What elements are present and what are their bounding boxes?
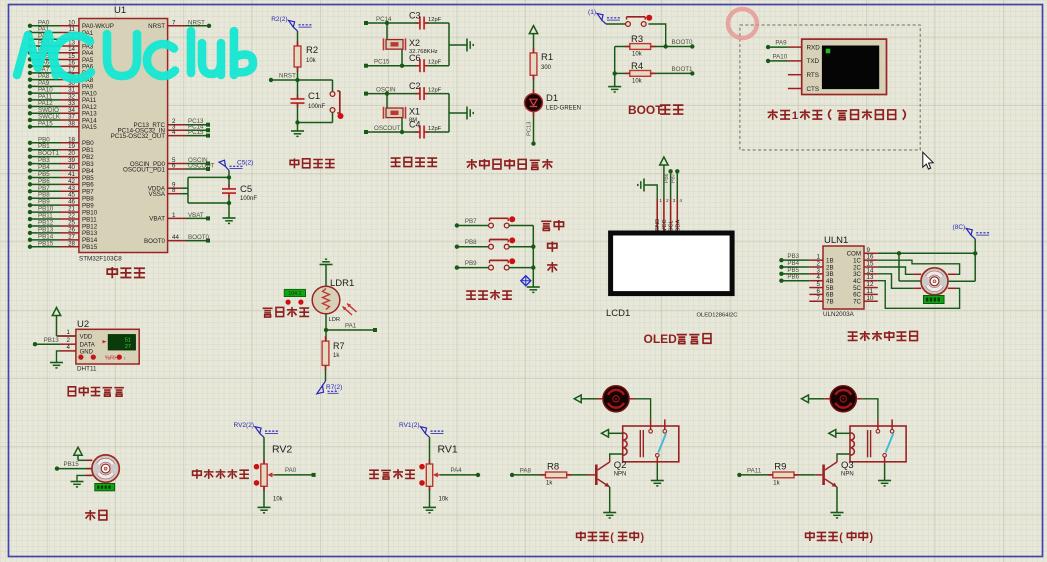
watermark MCUclub	[17, 31, 253, 79]
svg-text:8: 8	[172, 187, 176, 194]
U1 pin 2 PC13 wire	[133, 118, 210, 129]
node NRST	[269, 73, 333, 83]
ULN1 pin 12 5C	[853, 281, 878, 292]
ULN1 pin 7 7B	[809, 295, 833, 306]
svg-text:PA0: PA0	[285, 467, 297, 474]
svg-text:PA1: PA1	[345, 323, 357, 330]
svg-text:SCL: SCL	[669, 219, 675, 231]
ULN1 pin 4 4B	[809, 274, 833, 285]
BOOT button	[606, 15, 652, 27]
ULN1 pin 10 7C	[853, 295, 878, 306]
svg-text:OSCOUT_PD1: OSCOUT_PD1	[123, 166, 166, 173]
crystal X2 32.768KHz	[384, 21, 438, 68]
svg-text:X1: X1	[409, 106, 420, 116]
ground (inverted) LDR top	[320, 259, 333, 286]
label 四项步进电机	[848, 331, 918, 341]
arrow + wire fan left	[574, 395, 597, 403]
U1 pin 26 PB13 wire	[28, 226, 98, 237]
svg-text:PB15: PB15	[38, 240, 54, 247]
wire R7 bottom	[325, 365, 327, 381]
wire coil top arrow	[602, 430, 623, 438]
svg-text:%RH: %RH	[105, 355, 119, 361]
svg-text:8M: 8M	[409, 117, 417, 123]
terminal pin TXD	[788, 58, 820, 65]
svg-text:7: 7	[172, 19, 176, 26]
svg-text:NPN: NPN	[841, 472, 854, 478]
svg-text:R7: R7	[333, 341, 345, 351]
svg-text:VBAT: VBAT	[188, 212, 204, 219]
label 继电器(除湿)	[577, 531, 645, 543]
svg-text:38: 38	[68, 120, 75, 127]
OLED pin 2 VCC	[662, 198, 669, 233]
ground DHT11	[50, 363, 63, 368]
ground (rotated) OLED GND	[638, 179, 657, 200]
svg-text:R4: R4	[631, 61, 643, 72]
U1 pin 30 PA9 wire	[28, 80, 94, 91]
svg-text:10: 10	[867, 295, 874, 302]
svg-text:100nF: 100nF	[240, 196, 257, 202]
wire crystal bus	[449, 94, 467, 132]
node PC15	[364, 59, 418, 68]
svg-text:RXD: RXD	[807, 44, 821, 51]
label 晶振电路	[391, 157, 437, 166]
wire keys common rail	[531, 226, 535, 288]
svg-text:SDA: SDA	[675, 219, 681, 231]
U1 pin 20 BOOT1 wire	[28, 150, 94, 161]
svg-text:PB7: PB7	[671, 173, 677, 183]
wire PA10	[766, 53, 788, 63]
wire servo gnd pin	[77, 475, 92, 481]
wire relay pole to ground	[878, 464, 891, 486]
key button PB7	[455, 216, 534, 228]
OLED pin 1 GND	[655, 198, 662, 233]
fan motor load (加湿)	[824, 386, 862, 412]
svg-text:27: 27	[125, 344, 131, 350]
svg-text:12pF: 12pF	[428, 17, 442, 23]
svg-text:PB6: PB6	[664, 173, 670, 183]
label 温湿度模块	[68, 386, 124, 396]
svg-text:NRST: NRST	[148, 23, 165, 30]
stepper motor	[913, 268, 956, 295]
U1 pin 21 PB10 wire	[28, 206, 98, 217]
U1 pin 8 VSSA wire	[148, 187, 188, 198]
wire PA8 to R8 to base	[510, 467, 595, 477]
svg-text:10k: 10k	[632, 79, 643, 85]
node PC14	[364, 16, 418, 25]
svg-text:↕: ↕	[124, 355, 127, 361]
ground BOOT divider	[608, 87, 621, 92]
svg-text:C1: C1	[308, 91, 320, 102]
svg-text:100nF: 100nF	[308, 104, 325, 110]
svg-text:PC14: PC14	[376, 16, 392, 23]
wire crystal bus	[449, 23, 467, 66]
svg-text:PB8: PB8	[465, 239, 477, 246]
power arrow DHT11 VDD	[52, 308, 76, 337]
U1 pin 25 PB12 wire	[28, 219, 98, 230]
ULN1 pin 2 2B	[809, 261, 833, 272]
svg-text:R2: R2	[306, 45, 318, 56]
svg-text:C5: C5	[240, 184, 252, 195]
svg-text:10k: 10k	[273, 497, 284, 503]
svg-text:PB15: PB15	[64, 461, 80, 468]
wire D1 to PC13	[527, 112, 536, 146]
U1 pin 44 BOOT0 wire	[144, 234, 210, 245]
svg-text:2: 2	[67, 337, 71, 344]
svg-text:R9: R9	[774, 462, 786, 473]
ULN1 pin 6 6B	[809, 288, 833, 299]
annotation pink circle	[728, 9, 757, 38]
svg-text:): )	[640, 532, 644, 544]
svg-text:1: 1	[67, 329, 71, 336]
U1 pin 17 PA7 wire	[28, 66, 94, 77]
U1 pin 32 PA11 wire	[28, 93, 97, 104]
fan motor load (除湿)	[597, 386, 635, 412]
svg-text:D1: D1	[546, 93, 558, 104]
wire PB5 to ULN	[779, 267, 809, 276]
svg-text:PC15-OSC32_OUT: PC15-OSC32_OUT	[111, 133, 166, 140]
ground keys	[527, 287, 540, 292]
reset button (vertical)	[330, 80, 343, 123]
svg-text:DHT11: DHT11	[77, 366, 97, 373]
svg-text:OLED12864I2C: OLED12864I2C	[697, 313, 738, 319]
svg-text:PC15: PC15	[374, 59, 390, 66]
node OSCIN	[364, 86, 418, 95]
ground servo	[71, 482, 84, 487]
svg-text:OSCOUT: OSCOUT	[188, 163, 215, 170]
svg-text:RTS: RTS	[807, 72, 819, 79]
ULN1 pin 1 1B	[809, 254, 833, 265]
label BOOT电路	[628, 103, 683, 117]
wire relay pole to ground	[651, 464, 664, 486]
svg-text:R8: R8	[547, 462, 559, 473]
svg-text:PA15: PA15	[82, 124, 97, 131]
wire SDA	[671, 169, 680, 199]
capacitor C1 100nF	[291, 80, 326, 123]
ULN1 pin 3 3B	[809, 267, 833, 278]
svg-text:1: 1	[792, 110, 799, 122]
svg-text:NRST: NRST	[279, 73, 296, 80]
ULN1 pin 5 5B	[809, 281, 833, 292]
svg-text:1k: 1k	[333, 353, 340, 359]
wire 4C to motor (bottom loop)	[878, 281, 960, 309]
U1 pin 29 PA8 wire	[28, 73, 94, 84]
svg-text:U1: U1	[114, 5, 126, 16]
ULN1 pin 13 4C	[853, 274, 878, 285]
U1 pin 1 VBAT wire	[149, 212, 210, 223]
U1 pin 12 PA2 wire	[28, 33, 94, 44]
U1 pin 31 PA10 wire	[28, 87, 97, 98]
svg-text:32.768KHz: 32.768KHz	[409, 49, 438, 55]
U1 pin 28 PB15 wire	[28, 240, 98, 251]
U2 pin 4 GND wire	[57, 344, 76, 363]
wire PB15 servo	[55, 461, 92, 471]
U1 pin 4 PC15 wire	[111, 129, 210, 140]
key button PB8	[455, 237, 534, 249]
svg-text:C5(2): C5(2)	[237, 159, 253, 166]
U1 pin 10 PA0 wire	[28, 19, 114, 30]
svg-text:GND: GND	[80, 349, 94, 355]
resistor R7 1k	[322, 330, 344, 365]
label 设置	[541, 220, 563, 230]
label 主芯片	[107, 267, 145, 278]
svg-text:BOOT1: BOOT1	[672, 66, 694, 73]
svg-text:NPN: NPN	[614, 472, 627, 478]
U1 pin 3 PC14 wire	[118, 124, 210, 135]
node BOOT0	[651, 39, 695, 49]
capacitor C4 12pF	[409, 120, 449, 139]
potentiometer RV2 10k	[254, 437, 293, 502]
arrow + wire fan left	[802, 395, 825, 403]
dashed region box	[740, 25, 920, 150]
wire RV1 bottom + ground	[423, 486, 436, 513]
tag R2(2)	[271, 16, 311, 31]
LDR adjust display	[284, 289, 305, 304]
resistor R8 1k	[546, 462, 567, 487]
IC U1 STM32F103C8 body	[79, 5, 168, 263]
transistor Q2 NPN	[595, 459, 626, 487]
svg-text:PA4: PA4	[451, 467, 463, 474]
wire emitter ground	[831, 487, 844, 518]
label 光照调节	[263, 307, 309, 317]
U1 pin 14 PA4 wire	[28, 46, 94, 57]
U1 pin 34 SWDIO wire	[28, 107, 97, 118]
wire coil bottom to Q3	[837, 454, 850, 459]
U1 pin 15 PA5 wire	[28, 53, 94, 64]
U1 pin 27 PB14 wire	[28, 233, 98, 244]
tag (8C)	[953, 224, 990, 239]
svg-text:PA9: PA9	[775, 40, 787, 47]
U1 pin 45 PB8 wire	[28, 192, 94, 203]
svg-text:PB6: PB6	[787, 274, 799, 281]
svg-text:VDD: VDD	[80, 335, 93, 341]
sensor U2 DHT11 body	[76, 319, 139, 373]
wire C1 bottom rail	[295, 120, 332, 124]
ULN1 pin 9 COM	[847, 247, 878, 258]
U1 pin 42 PB6 wire	[28, 178, 94, 189]
wire R2 to NRST node	[297, 67, 299, 80]
relay (除湿)	[623, 419, 679, 464]
U1 pin 5 OSCIN wire	[130, 157, 210, 168]
label 继电器(加湿)	[806, 531, 874, 543]
tag R7(2)	[317, 381, 342, 394]
svg-text:PA11: PA11	[747, 467, 762, 474]
wire PA11 to R9 to base	[737, 467, 822, 477]
ULN1 pin 16 1C	[853, 254, 878, 265]
servo display	[95, 484, 115, 491]
wire SCL	[664, 169, 673, 199]
U1 pin 43 PB7 wire	[28, 185, 94, 196]
svg-text:28: 28	[68, 240, 75, 247]
wire R3/R4 left rail	[613, 47, 630, 87]
display LCD1 OLED12864I2C	[606, 233, 737, 319]
U1 pin 19 PB1 wire	[28, 143, 94, 154]
svg-text:7C: 7C	[853, 299, 861, 306]
svg-text:RV2(2): RV2(2)	[234, 422, 254, 429]
U1 pin 38 PA15 wire	[28, 120, 97, 131]
U1 pin 6 OSCOUT wire	[123, 163, 215, 174]
U1 pin 9 VDDA wire	[148, 182, 188, 193]
svg-text:PC15: PC15	[188, 129, 204, 136]
U1 pin 7 NRST wire	[148, 19, 211, 30]
svg-text:BOOT0: BOOT0	[672, 39, 694, 46]
svg-text:7B: 7B	[826, 299, 834, 306]
svg-text:PA10: PA10	[773, 53, 788, 60]
svg-text:(1): (1)	[588, 9, 596, 16]
servo motor	[86, 455, 119, 482]
ground (rotated) for X1	[467, 107, 473, 120]
svg-text:51: 51	[125, 338, 131, 344]
svg-text:GND: GND	[655, 219, 661, 232]
wire 1C to motor	[878, 260, 960, 274]
svg-text:104.1: 104.1	[288, 291, 301, 297]
wire RV2 bottom + ground	[258, 486, 271, 513]
svg-text:Q2: Q2	[614, 460, 627, 471]
svg-text:1k: 1k	[773, 481, 780, 487]
ground below C1	[291, 123, 304, 137]
svg-text:VCC: VCC	[662, 219, 668, 231]
label 独立按键	[466, 290, 512, 300]
tag RV1(2)	[399, 422, 443, 437]
wire LDR to PA1 node	[324, 314, 377, 332]
U1 pin 37 SWCLK wire	[28, 114, 97, 125]
label 舵机	[85, 510, 107, 520]
svg-text:PB15: PB15	[82, 244, 98, 251]
wire R2 top	[297, 31, 299, 46]
svg-text:Q3: Q3	[841, 460, 854, 471]
svg-text:DATA: DATA	[80, 343, 95, 349]
svg-text:LDR1: LDR1	[330, 278, 354, 289]
wire emitter ground	[603, 487, 616, 518]
U1 pin 18 PB0 wire	[28, 136, 94, 147]
svg-text:4: 4	[172, 129, 176, 136]
IC ULN1 ULN2003A body	[823, 235, 864, 318]
wire coil bottom to Q2	[610, 454, 623, 459]
svg-text:PB9: PB9	[465, 260, 477, 267]
node BOOT1	[651, 66, 695, 76]
svg-text:VSSA: VSSA	[148, 191, 165, 198]
resistor R3 10k	[630, 34, 651, 58]
wire fan to relay	[635, 399, 651, 420]
stepper display	[924, 296, 945, 304]
wire 3C to motor	[878, 274, 913, 288]
svg-text:R3: R3	[631, 34, 643, 45]
capacitor C2 12pF	[409, 81, 449, 100]
svg-text:LDR: LDR	[329, 317, 341, 323]
svg-text:LED-GREEN: LED-GREEN	[546, 106, 581, 112]
mouse cursor	[923, 152, 933, 169]
svg-text:R1: R1	[541, 52, 553, 63]
U1 pin 33 PA12 wire	[28, 100, 97, 111]
U2 pin 1 VDD stub	[57, 329, 76, 336]
wire COM net	[878, 239, 978, 281]
tag RV2(2)	[234, 422, 278, 437]
ULN1 pin 14 3C	[853, 267, 878, 278]
LDR1 photoresistor	[312, 278, 356, 323]
LED D1 LED-GREEN	[525, 93, 582, 112]
label 可燃气调节	[193, 469, 249, 479]
terminal pin RTS	[788, 72, 819, 79]
U1 pin 40 PB4 wire	[28, 164, 94, 175]
crystal X1 8M	[384, 91, 421, 134]
wire button to BOOT0	[648, 24, 665, 47]
svg-text:VBAT: VBAT	[149, 216, 165, 223]
terminal pin RXD	[788, 44, 820, 51]
power arrow for R1	[529, 26, 537, 53]
U1 pin 22 PB11 wire	[28, 213, 97, 224]
svg-text:PA15: PA15	[38, 120, 53, 127]
svg-text:PB13: PB13	[44, 337, 60, 344]
ULN1 pin 15 2C	[853, 261, 878, 272]
wire VDDA/VSSA to C5	[188, 177, 229, 203]
svg-text:300: 300	[541, 65, 552, 71]
svg-text:BOOT: BOOT	[628, 103, 663, 117]
power arrow servo	[74, 447, 92, 460]
node OSCOUT	[364, 125, 418, 134]
resistor R9 1k	[773, 462, 794, 487]
ULN1 pin 11 6C	[853, 288, 878, 299]
svg-text:10k: 10k	[439, 497, 450, 503]
wire PA4	[440, 467, 480, 477]
wire PB4 to ULN	[779, 260, 809, 269]
svg-text:BOOT0: BOOT0	[144, 238, 166, 245]
svg-text:ULN1: ULN1	[824, 235, 848, 246]
svg-text:7: 7	[817, 295, 821, 302]
svg-text:OLED: OLED	[644, 332, 678, 346]
svg-text:PB7: PB7	[465, 218, 477, 225]
svg-text:RV2: RV2	[272, 444, 292, 456]
capacitor C6 12pF	[409, 53, 449, 72]
svg-text:CTS: CTS	[807, 86, 820, 93]
potentiometer RV1 10k	[419, 437, 458, 502]
svg-text:ULN2003A: ULN2003A	[823, 311, 855, 318]
resistor R1 300	[530, 52, 553, 75]
svg-text:): )	[869, 532, 873, 544]
svg-text:PA8: PA8	[520, 467, 532, 474]
wire coil top arrow	[829, 430, 850, 438]
svg-text:PC13: PC13	[527, 121, 533, 136]
transistor Q3 NPN	[822, 459, 853, 487]
svg-text:U2: U2	[77, 319, 89, 330]
wire C5 to ground	[228, 203, 230, 218]
svg-text:RV1(2): RV1(2)	[399, 422, 419, 429]
U1 pin 16 PA6 wire	[28, 60, 94, 71]
U1 pin 46 PB9 wire	[28, 199, 94, 210]
wire PA9	[766, 40, 788, 50]
OLED pin 3 SCL	[669, 198, 676, 233]
tag C5(2)	[219, 159, 253, 177]
OLED pin 4 SDA	[675, 198, 682, 233]
label OLED显示屏	[644, 332, 711, 346]
svg-text:R7(2): R7(2)	[326, 384, 342, 391]
resistor R4 10k	[630, 61, 651, 85]
resistor R2 10k	[294, 45, 318, 67]
U1 pin 41 PB5 wire	[28, 171, 94, 182]
U1 pin 13 PA3 wire	[28, 39, 94, 50]
svg-text:(8C): (8C)	[953, 224, 966, 231]
svg-text:C2: C2	[409, 81, 421, 91]
capacitor C3 12pF	[409, 11, 449, 30]
terminal pin CTS	[788, 86, 819, 93]
svg-text:6: 6	[172, 163, 176, 170]
svg-text:OSCOUT: OSCOUT	[374, 125, 401, 132]
svg-text:(: (	[610, 532, 614, 544]
svg-text:(: (	[839, 532, 843, 544]
power arrow OLED VCC	[660, 157, 668, 199]
svg-text:RV1: RV1	[438, 444, 458, 456]
label 减	[547, 262, 557, 272]
svg-text:12pF: 12pF	[428, 60, 442, 66]
U1 pin 39 PB3 wire	[28, 157, 94, 168]
